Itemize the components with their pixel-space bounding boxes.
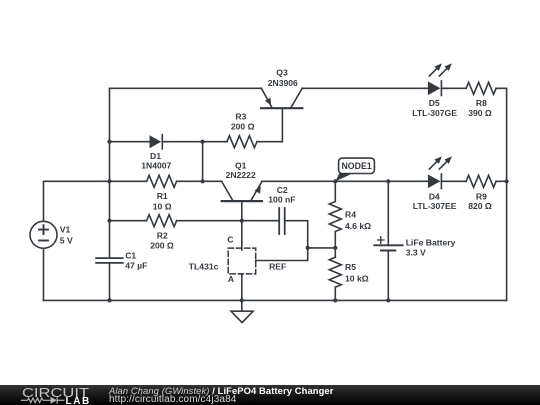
svg-text:200 Ω: 200 Ω — [150, 241, 174, 251]
svg-text:REF: REF — [269, 261, 286, 271]
svg-text:LTL-307GE: LTL-307GE — [412, 108, 457, 118]
svg-text:LiFe Battery: LiFe Battery — [406, 238, 456, 248]
svg-text:100 nF: 100 nF — [268, 194, 295, 204]
svg-text:R1: R1 — [157, 191, 168, 201]
svg-text:10 Ω: 10 Ω — [153, 201, 172, 211]
svg-text:C1: C1 — [125, 250, 136, 260]
svg-text:V1: V1 — [60, 225, 71, 235]
svg-text:3.3 V: 3.3 V — [406, 248, 426, 258]
svg-text:R9: R9 — [476, 191, 487, 201]
svg-text:LAB: LAB — [66, 396, 91, 405]
svg-text:R3: R3 — [235, 111, 246, 121]
svg-text:LTL-307EE: LTL-307EE — [413, 201, 457, 211]
svg-text:D4: D4 — [429, 191, 440, 201]
svg-text:1N4007: 1N4007 — [141, 161, 171, 171]
svg-text:47 µF: 47 µF — [125, 260, 147, 270]
svg-text:NODE1: NODE1 — [341, 161, 371, 171]
svg-text:R2: R2 — [157, 230, 168, 240]
svg-text:200 Ω: 200 Ω — [231, 122, 255, 132]
svg-text:5 V: 5 V — [60, 236, 73, 246]
svg-text:10 kΩ: 10 kΩ — [345, 274, 369, 284]
svg-text:Q3: Q3 — [276, 68, 288, 78]
svg-text:C2: C2 — [277, 185, 288, 195]
svg-text:D5: D5 — [429, 98, 440, 108]
svg-text:A: A — [228, 274, 234, 284]
svg-text:Q1: Q1 — [235, 160, 247, 170]
svg-text:R5: R5 — [345, 262, 356, 272]
svg-text:820 Ω: 820 Ω — [468, 201, 492, 211]
svg-text:2N2222: 2N2222 — [226, 170, 256, 180]
svg-text:TL431c: TL431c — [189, 262, 219, 272]
svg-text:2N3906: 2N3906 — [268, 78, 298, 88]
svg-text:D1: D1 — [150, 151, 161, 161]
svg-text:R8: R8 — [476, 98, 487, 108]
svg-text:R4: R4 — [345, 210, 356, 220]
svg-text:390 Ω: 390 Ω — [468, 108, 492, 118]
svg-text:C: C — [227, 234, 233, 244]
svg-text:4.6 kΩ: 4.6 kΩ — [345, 221, 371, 231]
